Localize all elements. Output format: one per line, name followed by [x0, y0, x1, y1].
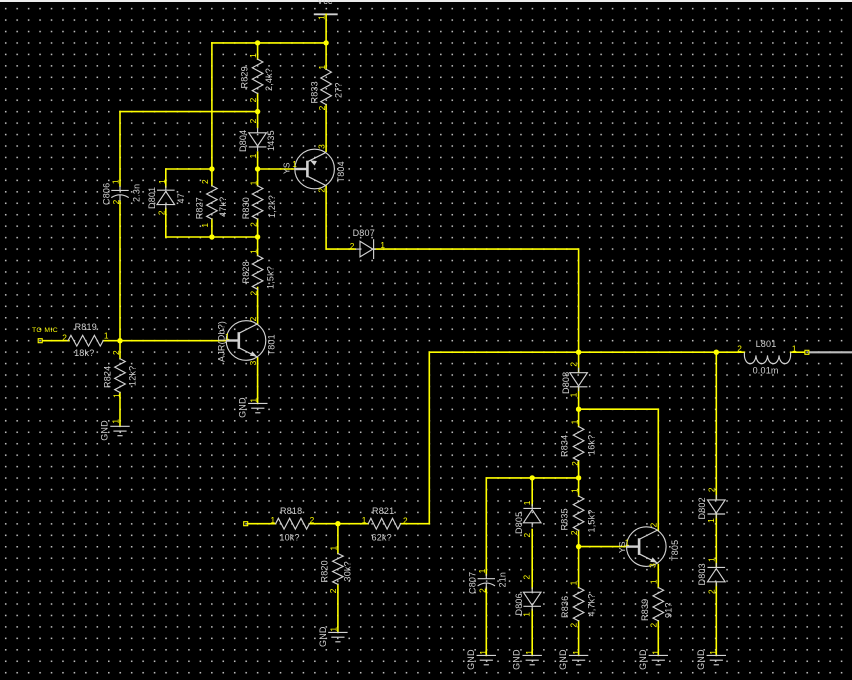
- wire R828 bottom stub: [257, 288, 259, 307]
- svg-text:D807: D807: [353, 228, 375, 238]
- svg-text:2: 2: [310, 515, 315, 525]
- svg-text:1: 1: [362, 515, 367, 525]
- wire R834 top stub: [578, 409, 580, 426]
- junction R830/R828 node: [255, 234, 260, 239]
- svg-text:GND: GND: [696, 649, 706, 670]
- svg-text:1: 1: [569, 580, 579, 585]
- off-sheet gray line: [809, 351, 852, 353]
- svg-text:R819: R819: [75, 322, 97, 332]
- svg-text:2: 2: [248, 222, 258, 227]
- svg-text:2: 2: [570, 461, 580, 466]
- wire R818 to R821: [309, 523, 368, 525]
- wire R827 bottom stub: [211, 219, 213, 237]
- svg-text:R830: R830: [241, 197, 251, 219]
- wire T804 collector to D807: [326, 186, 355, 249]
- svg-text:1: 1: [157, 179, 167, 184]
- svg-text:R818: R818: [280, 506, 302, 516]
- svg-text:2: 2: [249, 291, 259, 296]
- wire R827 top stub: [211, 169, 213, 186]
- svg-text:3: 3: [648, 563, 658, 568]
- svg-text:1: 1: [650, 650, 660, 655]
- svg-text:L801: L801: [756, 339, 777, 349]
- svg-text:GND: GND: [100, 420, 110, 441]
- junction mid rail / D802: [714, 350, 719, 355]
- svg-text:2: 2: [111, 199, 121, 204]
- svg-text:1: 1: [200, 223, 210, 228]
- resistor R839 body: [653, 588, 664, 621]
- svg-text:4,7k?: 4,7k?: [587, 593, 597, 616]
- top window border line: [0, 0, 852, 2]
- svg-text:1: 1: [522, 612, 532, 617]
- svg-text:R821: R821: [372, 506, 394, 516]
- svg-text:D801: D801: [147, 187, 157, 209]
- wire D801 top horizontal: [166, 169, 212, 187]
- svg-text:GND: GND: [512, 649, 522, 670]
- wire TO MIC input: [43, 340, 70, 342]
- svg-text:1: 1: [478, 650, 488, 655]
- svg-text:1: 1: [292, 159, 297, 169]
- diode D804 body: [257, 128, 259, 133]
- wire R836 bottom to ground: [578, 621, 580, 656]
- svg-text:2: 2: [248, 316, 258, 321]
- wire R834 to C807 node: [486, 478, 578, 575]
- wire R835 top stub: [578, 478, 580, 496]
- resistor R821 body: [368, 518, 400, 529]
- diode D802 body: [715, 495, 717, 500]
- wire top rail: [212, 42, 326, 44]
- wire R818 pad to resistor: [248, 523, 276, 525]
- svg-text:3: 3: [316, 144, 326, 149]
- wire D808 bottom stub: [578, 388, 580, 410]
- wire C807 bottom to ground: [485, 587, 487, 655]
- wire R839 bottom to ground: [657, 621, 659, 656]
- ground symbol R824: [110, 425, 129, 427]
- resistor R828 body: [252, 256, 263, 290]
- wire C806 top column: [119, 112, 121, 186]
- wire D802 top stub: [715, 352, 717, 499]
- svg-text:1435: 1435: [266, 130, 276, 151]
- svg-text:2: 2: [569, 362, 579, 367]
- wire T801 emitter to ground: [257, 358, 259, 404]
- svg-text:2: 2: [156, 210, 166, 215]
- svg-text:D802: D802: [697, 497, 707, 519]
- svg-text:GND: GND: [237, 397, 247, 418]
- resistor R830 body: [252, 186, 263, 219]
- wire D804 top stub: [257, 112, 259, 128]
- svg-text:1: 1: [329, 627, 339, 632]
- svg-text:1: 1: [317, 65, 327, 70]
- svg-text:2: 2: [403, 515, 408, 525]
- svg-text:1: 1: [270, 515, 275, 525]
- junction R834/R835 node: [576, 475, 581, 480]
- svg-text:1: 1: [111, 179, 121, 184]
- svg-text:T801: T801: [267, 334, 277, 355]
- wire mid rail drop to R821: [401, 352, 430, 524]
- svg-text:R824: R824: [103, 366, 113, 388]
- wire R820 top stub: [337, 524, 339, 554]
- transistor T805 (NPN): [627, 527, 667, 567]
- ground symbol D803: [707, 654, 726, 656]
- svg-text:D804: D804: [238, 130, 248, 152]
- svg-text:1: 1: [792, 344, 797, 354]
- svg-text:YS: YS: [282, 162, 292, 174]
- wire D803 bottom to ground: [715, 584, 717, 656]
- wire left drop from top rail: [211, 43, 213, 169]
- resistor R835 body: [573, 496, 584, 530]
- svg-text:GND: GND: [318, 626, 328, 647]
- wire D806 bottom to ground: [531, 610, 533, 656]
- svg-text:3: 3: [248, 360, 258, 365]
- capacitor C807 body: [485, 574, 487, 579]
- svg-text:0.01m: 0.01m: [753, 366, 779, 376]
- svg-text:1: 1: [225, 332, 230, 342]
- wire bottom horizontal D801-R828: [166, 236, 258, 238]
- svg-text:18k?: 18k?: [74, 348, 94, 358]
- wire T805 base: [579, 546, 627, 548]
- svg-text:R820: R820: [320, 560, 330, 582]
- junction mid rail / D808: [576, 350, 581, 355]
- svg-text:10k?: 10k?: [279, 533, 299, 543]
- junction R829/D804 node: [255, 109, 260, 114]
- svg-text:D808: D808: [561, 372, 571, 394]
- wire R824 bottom stub: [119, 393, 121, 427]
- output pad: [805, 350, 809, 354]
- junction D805 top node: [530, 475, 535, 480]
- resistor R834 body: [573, 427, 584, 461]
- svg-text:2: 2: [569, 530, 579, 535]
- svg-text:47: 47: [176, 193, 186, 203]
- svg-text:1: 1: [625, 538, 630, 548]
- wire D805 to D806: [531, 530, 533, 589]
- junction R819/R824 node: [117, 338, 122, 343]
- svg-text:R827: R827: [195, 197, 205, 219]
- wire R833 bottom to T804 emitter: [325, 105, 327, 152]
- wire L801 to output pad: [791, 351, 805, 353]
- svg-text:Vcc: Vcc: [317, 0, 333, 6]
- inductor L801 body: [744, 352, 790, 363]
- svg-text:1: 1: [571, 650, 581, 655]
- svg-text:2: 2: [62, 333, 67, 343]
- resistor R824 body: [115, 359, 126, 393]
- svg-text:2: 2: [328, 588, 338, 593]
- wire D802 to D803: [715, 514, 717, 567]
- svg-text:1: 1: [706, 518, 716, 523]
- svg-text:1: 1: [248, 153, 258, 158]
- svg-text:R833: R833: [310, 81, 320, 103]
- svg-text:R834: R834: [560, 435, 570, 457]
- svg-text:T805: T805: [670, 540, 680, 561]
- svg-text:2: 2: [350, 241, 355, 251]
- wire R824 top stub: [119, 341, 121, 359]
- svg-text:TO MIC: TO MIC: [32, 327, 58, 334]
- svg-text:GND: GND: [558, 649, 568, 670]
- svg-text:2: 2: [706, 487, 716, 492]
- svg-text:1: 1: [649, 579, 659, 584]
- diode D803 body: [715, 563, 717, 568]
- diode D807 body: [355, 239, 376, 259]
- svg-text:2: 2: [522, 575, 532, 580]
- wire D808 top stub: [578, 352, 580, 372]
- wire D804 bottom stub: [257, 152, 259, 169]
- svg-text:21n: 21n: [498, 572, 508, 588]
- svg-text:2: 2: [569, 623, 579, 628]
- junction top rail / R829: [255, 40, 260, 45]
- svg-text:1: 1: [380, 240, 385, 250]
- svg-text:T804: T804: [336, 161, 346, 182]
- svg-text:R835: R835: [560, 508, 570, 530]
- svg-text:2: 2: [648, 623, 658, 628]
- diode D805 body: [531, 504, 533, 509]
- svg-text:1: 1: [570, 419, 580, 424]
- capacitor C806 body: [119, 186, 121, 191]
- resistor R836 body: [573, 588, 584, 621]
- svg-text:2: 2: [200, 179, 210, 184]
- wire D801 bottom: [165, 209, 167, 238]
- svg-text:16k?: 16k?: [587, 435, 597, 455]
- wire D805 top stub: [531, 478, 533, 506]
- wire R834 bottom stub: [578, 461, 580, 478]
- junction D808/R834 node: [576, 407, 581, 412]
- Vcc supply symbol: [314, 13, 338, 15]
- svg-text:R836: R836: [560, 596, 570, 618]
- wire T805 emitter to R839: [657, 565, 659, 588]
- svg-text:2: 2: [707, 589, 717, 594]
- svg-text:1: 1: [249, 249, 259, 254]
- wire R820 bottom to ground: [337, 584, 339, 632]
- wire R835 bottom stub: [578, 530, 580, 546]
- svg-text:1: 1: [569, 392, 579, 397]
- wire mid horizontal rail: [429, 351, 744, 353]
- svg-text:1: 1: [524, 650, 534, 655]
- ground symbol R839: [649, 654, 668, 656]
- svg-text:D805: D805: [514, 512, 524, 534]
- wire R830 bottom stub: [257, 219, 259, 237]
- wire T804 base: [258, 168, 295, 170]
- junction top rail / R833: [323, 40, 328, 45]
- diode D801 body: [165, 186, 167, 191]
- svg-text:R829: R829: [240, 66, 250, 88]
- svg-text:1: 1: [570, 488, 580, 493]
- svg-text:1: 1: [522, 500, 532, 505]
- svg-text:47k?: 47k?: [218, 197, 228, 217]
- resistor R819 body: [68, 335, 103, 346]
- svg-text:2,4k?: 2,4k?: [264, 68, 274, 91]
- ground symbol R836: [569, 654, 588, 656]
- diode D806 body: [531, 587, 533, 592]
- svg-text:12k?: 12k?: [128, 366, 138, 386]
- svg-text:27?: 27?: [334, 82, 344, 98]
- wire R828 top stub: [257, 237, 259, 256]
- wire R829 bottom stub: [257, 94, 259, 112]
- svg-text:2: 2: [317, 105, 327, 110]
- wire node B horizontal (C806 top to D804): [120, 111, 258, 113]
- wire Vcc stub: [325, 14, 327, 43]
- junction R818/R820 node: [335, 521, 340, 526]
- svg-text:1: 1: [328, 546, 338, 551]
- svg-text:2: 2: [248, 97, 258, 102]
- wire R833 top stub: [325, 43, 327, 69]
- svg-text:1: 1: [111, 419, 121, 424]
- svg-text:62k?: 62k?: [372, 533, 392, 543]
- svg-text:GND: GND: [638, 649, 648, 670]
- svg-text:1,2k?: 1,2k?: [267, 195, 277, 218]
- svg-text:30k?: 30k?: [343, 561, 353, 581]
- wire D807 output to mid rail: [375, 249, 579, 352]
- svg-text:1: 1: [317, 15, 327, 20]
- wire R829 top stub: [257, 43, 259, 59]
- svg-text:R828: R828: [241, 261, 251, 283]
- junction R827 bottom: [209, 234, 214, 239]
- svg-text:GND: GND: [466, 649, 476, 670]
- wire T801 collector: [257, 306, 259, 324]
- junction D801/R827 top node: [209, 166, 214, 171]
- svg-text:1: 1: [104, 331, 109, 341]
- ground symbol R820: [328, 631, 347, 633]
- svg-text:1: 1: [248, 53, 258, 58]
- resistor R833 body: [321, 69, 332, 104]
- svg-text:2: 2: [477, 588, 487, 593]
- wire R819 to T801 base: [103, 340, 227, 342]
- transistor T801 (NPN): [226, 321, 266, 361]
- R818 input pad: [244, 522, 248, 526]
- svg-text:D803: D803: [697, 563, 707, 585]
- ground symbol T801: [248, 402, 267, 404]
- resistor R818 body: [276, 518, 310, 529]
- junction D804/R830/base node: [255, 166, 260, 171]
- wire R836 top stub: [578, 547, 580, 588]
- svg-text:1,5k?: 1,5k?: [266, 266, 276, 289]
- svg-text:1: 1: [249, 180, 259, 185]
- svg-text:2: 2: [737, 344, 742, 354]
- svg-text:1: 1: [707, 557, 717, 562]
- resistor R829 body: [252, 59, 263, 93]
- svg-text:C807: C807: [468, 572, 478, 594]
- svg-text:2: 2: [522, 533, 532, 538]
- svg-text:R839: R839: [640, 599, 650, 621]
- svg-text:2.3n: 2.3n: [132, 184, 142, 202]
- resistor R820 body: [333, 554, 344, 585]
- svg-text:1: 1: [477, 568, 487, 573]
- ground symbol C807: [477, 654, 496, 656]
- svg-text:2: 2: [649, 522, 659, 527]
- svg-text:1: 1: [708, 650, 718, 655]
- TO MIC pad: [38, 339, 42, 343]
- wire R830 top stub: [257, 169, 259, 186]
- wire C806 bottom column: [119, 201, 121, 341]
- junction R835/R836/T805 base node: [576, 544, 581, 549]
- svg-text:1: 1: [249, 398, 259, 403]
- svg-text:1,5k?: 1,5k?: [587, 509, 597, 532]
- svg-text:2: 2: [248, 118, 258, 123]
- wire D808 to T805 collector: [579, 409, 659, 530]
- svg-text:91?: 91?: [664, 602, 674, 618]
- diode D808 body: [578, 368, 580, 373]
- transistor T804 (PNP): [295, 149, 335, 189]
- resistor R827 body: [207, 186, 218, 219]
- svg-text:2: 2: [317, 188, 327, 193]
- ground symbol D806: [523, 654, 542, 656]
- svg-text:2: 2: [111, 350, 121, 355]
- svg-text:1: 1: [111, 393, 121, 398]
